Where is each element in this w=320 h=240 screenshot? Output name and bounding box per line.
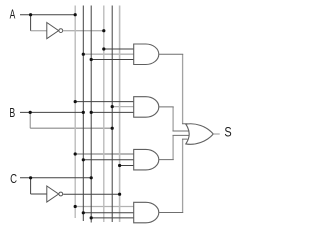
wire AND4 output to OR input4 [159, 139, 188, 212]
wire inverter U1 output to bus Abar (light) [63, 30, 104, 32]
wire B lower branch to bus B2 [30, 127, 112, 129]
junction AND1 in3 [90, 58, 93, 61]
wire AND1 output feeder vertical [182, 54, 184, 124]
wire tap AND4 input3 from bus C [91, 217, 134, 219]
junction AND4 in2 [82, 211, 85, 214]
wire input A horizontal [20, 14, 75, 16]
junction Cbar to bus Cbar [118, 193, 121, 196]
wire inverter U2 output to bus Cbar [63, 193, 119, 195]
bus A vertical (light) [74, 6, 76, 219]
junction C split [29, 176, 32, 179]
junction B branch to bus B2 [111, 127, 114, 130]
and-gate U5 [134, 149, 159, 170]
wire B lower branch drop [29, 112, 31, 128]
svg-text:B: B [9, 106, 15, 120]
junction B split [29, 111, 32, 114]
wire tap AND2 input1 from bus A [75, 101, 134, 103]
junction AND1 in1 [102, 47, 105, 50]
bus B2 vertical (dark) [111, 6, 113, 223]
wire input C horizontal [20, 177, 91, 179]
bus C vertical (dark) [90, 6, 92, 223]
junction A split [29, 13, 32, 16]
wire tap AND3 input1 from bus A (medium) [75, 153, 134, 155]
wire A drop to inverter [30, 15, 32, 31]
inverter U1 triangle [47, 23, 59, 39]
wire inverter U2 input [31, 193, 47, 195]
junction B to bus B [82, 111, 85, 114]
bus Cbar vertical (light) [119, 6, 121, 223]
junction AND3 in3 [118, 164, 121, 167]
wire OR output to S [213, 133, 219, 135]
wire AND2 output to OR input2 [159, 107, 190, 131]
wire AND3 output feeder vertical [172, 135, 174, 159]
bus Abar vertical (light) [103, 6, 105, 223]
junction AND3 in1 [74, 152, 77, 155]
wire tap AND1 input1 from bus Abar [104, 48, 135, 50]
wire C drop to inverter [30, 178, 32, 194]
wire input B horizontal [20, 111, 83, 113]
svg-text:S: S [224, 125, 231, 140]
wire tap AND2 input3 from bus C [91, 111, 134, 113]
wire tap AND3 input3 from bus Cbar [120, 165, 135, 167]
wire tap AND4 input2 from bus B [83, 212, 134, 214]
and-gate U6 [134, 202, 159, 223]
wire AND3 output to OR input3 [159, 135, 190, 159]
svg-text:A: A [10, 8, 16, 22]
wire AND1 output to OR input1 [159, 54, 188, 124]
wire tap AND2 input2 from bus B2 (light) [112, 106, 134, 108]
junction AND4 in1 [74, 205, 77, 208]
junction C to bus C [90, 176, 93, 179]
junction AND4 in3 [90, 216, 93, 219]
wire tap AND4 input1 from bus A (light) [75, 206, 134, 208]
junction A to bus A [74, 13, 77, 16]
bus B vertical (dark) [82, 6, 84, 222]
junction AND2 in3 [90, 111, 93, 114]
and-gate U3 [134, 44, 159, 65]
wire tap AND3 input2 from bus B [83, 159, 134, 161]
junction AND3 in2 [82, 158, 85, 161]
junction Abar to bus Abar [102, 29, 105, 32]
svg-text:C: C [10, 172, 17, 186]
wire tap AND1 input2 from bus B (light) [83, 53, 134, 55]
inverter U2 triangle [47, 186, 59, 202]
or-gate U7 [186, 124, 214, 145]
junction AND2 in1 [74, 100, 77, 103]
wire AND2 output feeder vertical [172, 107, 174, 131]
inverter U1 bubble [59, 29, 63, 33]
wire tap AND1 input3 from bus C [91, 59, 134, 61]
wire inverter U1 input (light) [31, 30, 47, 32]
and-gate U4 [134, 97, 159, 118]
junction AND1 in2 [82, 53, 85, 56]
wire AND4 output feeder vertical [182, 139, 184, 212]
junction AND2 in2 [111, 105, 114, 108]
inverter U2 bubble [59, 192, 63, 196]
